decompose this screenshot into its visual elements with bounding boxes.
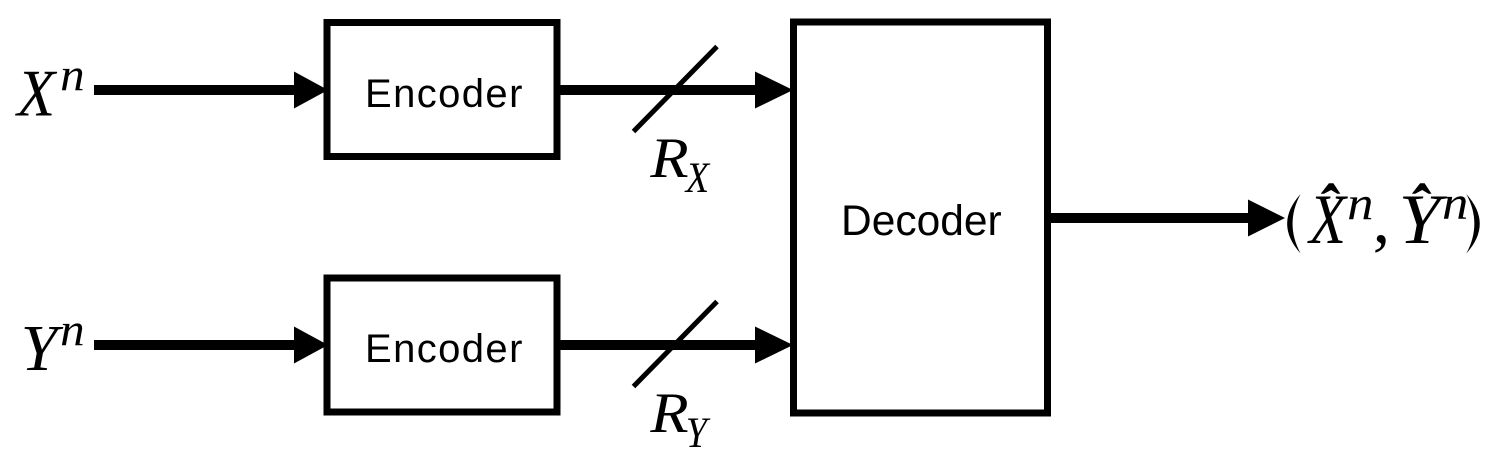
svg-text:Encoder: Encoder: [365, 327, 524, 371]
arrowhead into decoder (bottom): [755, 327, 793, 364]
encoder box E1 (top): [327, 23, 557, 157]
input label X^n: [14, 49, 84, 130]
svg-text:n: n: [1347, 176, 1373, 229]
rate slash RX: [634, 47, 718, 132]
svg-text:Y: Y: [1399, 180, 1447, 258]
decoder box: [794, 22, 1048, 413]
svg-text:n: n: [60, 49, 85, 101]
encoder box E2 (bottom): [327, 278, 557, 412]
svg-text:X: X: [684, 154, 711, 202]
arrowhead into decoder (top): [755, 72, 793, 109]
input label Y^n: [21, 304, 85, 385]
arrowhead into top encoder: [294, 72, 328, 109]
arrowhead into bottom encoder: [294, 327, 328, 364]
wire: encoder2 to decoder: [560, 340, 757, 350]
rate label R_X: [649, 126, 711, 202]
wire: Yn input: [94, 340, 296, 350]
svg-text:R: R: [649, 381, 688, 445]
rate slash RY: [634, 302, 718, 387]
wire: decoder output: [1051, 213, 1250, 223]
svg-text:,: ,: [1373, 181, 1390, 257]
svg-text:n: n: [1442, 176, 1468, 229]
svg-text:Y: Y: [686, 409, 711, 457]
svg-text:X: X: [1306, 180, 1348, 259]
rate label R_Y: [649, 381, 711, 457]
svg-text:R: R: [649, 126, 688, 190]
svg-text:Y: Y: [21, 312, 64, 385]
svg-text:Encoder: Encoder: [365, 72, 524, 116]
wire: Xn input: [94, 85, 296, 95]
arrowhead at output: [1248, 200, 1285, 237]
wire: encoder1 to decoder: [560, 85, 757, 95]
svg-text:X: X: [14, 56, 57, 131]
output label (Xhat^n, Yhat^n): [1287, 176, 1480, 259]
svg-text:n: n: [60, 304, 85, 356]
svg-text:Decoder: Decoder: [841, 198, 1002, 245]
